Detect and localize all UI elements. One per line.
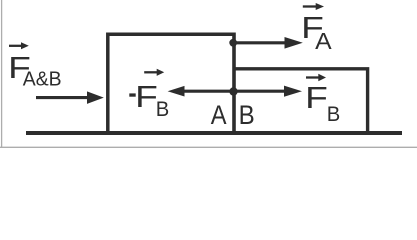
- svg-text:A&B: A&B: [23, 68, 62, 90]
- frame bottom border: [0, 146, 417, 148]
- frame left border: [1, 0, 3, 148]
- label -F_B: [135, 69, 169, 122]
- svg-text:B: B: [156, 98, 170, 121]
- svg-text:B: B: [327, 103, 341, 126]
- block B: [234, 69, 368, 133]
- node dot middle (application point of F_B forces): [229, 87, 237, 95]
- force arrow F_A: [234, 37, 303, 49]
- svg-text:B: B: [239, 100, 255, 130]
- svg-text:F: F: [135, 79, 158, 114]
- ground line: [26, 131, 402, 135]
- svg-text:A: A: [211, 100, 227, 130]
- label F_A: [301, 3, 332, 54]
- svg-text:F: F: [305, 80, 328, 115]
- divider wall between block A and block B: [232, 33, 236, 136]
- label F_B: [305, 74, 340, 126]
- label F_A&B: [8, 42, 62, 90]
- label -F_B minus sign: [129, 93, 135, 96]
- force arrow F_B: [234, 86, 302, 97]
- block A: [108, 34, 234, 133]
- node dot top (application point of F_A): [229, 39, 237, 47]
- force arrow -F_B (points left): [168, 86, 232, 97]
- force arrow F_A&B: [36, 91, 104, 104]
- svg-text:A: A: [315, 28, 332, 54]
